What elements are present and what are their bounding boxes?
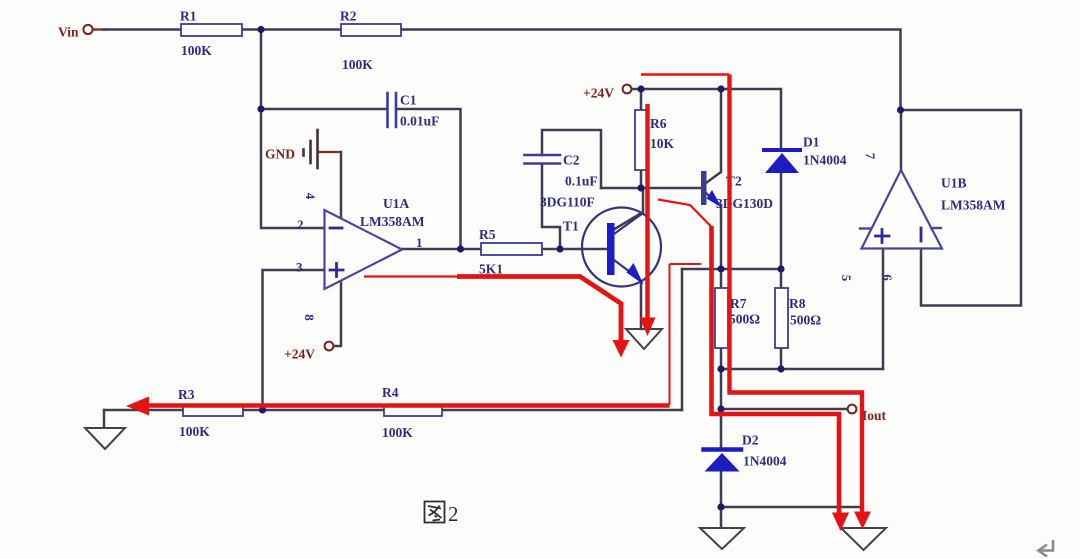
ground under T1 (626, 329, 662, 349)
wire pin8 to +24V terminal (334, 278, 341, 346)
red arrowhead under T1 left (613, 340, 630, 358)
resistor R2 (341, 24, 401, 36)
capacitor C1 (388, 93, 397, 127)
svg-text:D1: D1 (803, 135, 820, 150)
wire U1B pin5 down to sense (882, 248, 885, 369)
svg-text:R1: R1 (180, 9, 197, 24)
wire +24V rail (632, 89, 781, 148)
wire ground run right (721, 507, 862, 524)
wire Vin to R1 (104, 28, 181, 31)
resistor R8 (775, 288, 788, 348)
svg-text:U1A: U1A (383, 196, 409, 211)
svg-text:100K: 100K (342, 57, 373, 72)
wire T2 emitter down (720, 206, 723, 269)
capacitor C2 (525, 155, 561, 164)
node R6 bottom (637, 184, 644, 191)
wire sense left down to R4 (681, 269, 684, 410)
transistor T1 (582, 208, 661, 287)
wire C1 right to output node (397, 109, 461, 249)
svg-text:10K: 10K (650, 136, 675, 151)
svg-text:+24V: +24V (284, 347, 315, 362)
wire D2 top (720, 409, 723, 447)
svg-text:+24V: +24V (583, 86, 614, 101)
node sense top R8 (777, 265, 784, 272)
wire R1 to R2 (242, 28, 341, 31)
wire R7 pins (720, 269, 723, 369)
wire R6 top to +24V rail (640, 89, 643, 110)
node output C1 (457, 245, 464, 252)
node C1 branch (257, 105, 264, 112)
svg-text:1: 1 (416, 235, 423, 250)
wire sense bottom to U1B pin5 (721, 368, 883, 371)
figure label box glyph (425, 502, 445, 523)
op-amp U1B (860, 170, 942, 249)
svg-text:R5: R5 (479, 227, 496, 242)
svg-text:5: 5 (839, 275, 854, 282)
node U1B top (897, 106, 904, 113)
svg-text:100K: 100K (382, 425, 413, 440)
wire C2 top loop (542, 130, 601, 188)
terminal +24V bottom (325, 342, 334, 351)
wire R6 bottom stub (640, 170, 643, 188)
wire R5 to T1 base (542, 248, 607, 251)
svg-text:R6: R6 (650, 116, 667, 131)
wire Vin stub (93, 28, 106, 30)
svg-text:2: 2 (297, 217, 304, 232)
svg-text:R3: R3 (178, 387, 195, 402)
resistor R3 (183, 405, 243, 417)
wire U1B feedback loop (901, 110, 1022, 306)
wire Iout (721, 408, 848, 411)
ground under D2 (700, 528, 744, 549)
svg-text:100K: 100K (181, 43, 212, 58)
svg-text:R8: R8 (789, 296, 806, 311)
node sense top R7 (717, 265, 724, 272)
svg-text:1N4004: 1N4004 (803, 153, 847, 168)
svg-text:3DG110F: 3DG110F (540, 195, 595, 210)
red path feedback arrow to left ground (148, 264, 701, 406)
transistor T2 (701, 171, 722, 208)
node R3 R4 pin3 (259, 406, 266, 413)
node sense bottom R7 (717, 365, 724, 372)
wire R3 R4 net (104, 409, 682, 412)
node +24V R6 (637, 85, 644, 92)
svg-text:Iout: Iout (862, 408, 887, 423)
wire left ground stub (103, 410, 106, 428)
wire U1B pin7 output (900, 110, 903, 171)
GND bars symbol (304, 130, 318, 168)
svg-text:4: 4 (303, 193, 318, 200)
red path R6 vertical arrow (645, 104, 649, 318)
red arrowhead bottom left (832, 513, 849, 532)
op-amp U1A (325, 210, 403, 289)
svg-text:100K: 100K (179, 424, 210, 439)
wire ground stub under D2 (720, 507, 723, 526)
node Iout junction (717, 405, 724, 412)
terminal +24V top (623, 85, 632, 94)
svg-text:500Ω: 500Ω (790, 313, 821, 328)
svg-text:3: 3 (296, 260, 303, 275)
red arrowhead under T1 right (640, 318, 656, 337)
wire GND stub maroon (319, 151, 341, 153)
resistor R7 (715, 288, 728, 348)
svg-text:R2: R2 (340, 9, 357, 24)
svg-text:LM358AM: LM358AM (941, 198, 1006, 213)
red arrowhead bottom right (854, 512, 871, 530)
svg-text:Vin: Vin (58, 25, 79, 40)
red path 24V to Iout ground (641, 75, 862, 521)
svg-text:C1: C1 (400, 93, 417, 108)
svg-text:7: 7 (863, 153, 878, 160)
wire pin3 to R3R4 node (263, 270, 325, 410)
svg-text:D2: D2 (742, 433, 759, 448)
wire GND down to pin4 (340, 152, 343, 219)
wire R2 to top-right corner and down to U1B node (401, 30, 901, 111)
svg-text:0.1uF: 0.1uF (565, 174, 598, 189)
wire T2 collector (706, 89, 721, 183)
resistor R4 (384, 405, 442, 417)
svg-text:C2: C2 (563, 153, 580, 168)
wire R8 pins (780, 269, 783, 369)
wire U1A output to R5 (402, 248, 481, 251)
svg-text:2: 2 (448, 502, 459, 526)
svg-text:6: 6 (880, 274, 895, 281)
resistor R6 (635, 110, 648, 170)
terminal Vin (83, 25, 92, 34)
node +24V T2 (717, 85, 724, 92)
node C2 base (556, 245, 563, 252)
node D2 ground (717, 503, 724, 510)
node R1-R2 junction (257, 26, 264, 33)
terminal Iout (848, 405, 857, 414)
svg-text:0.01uF: 0.01uF (400, 114, 439, 129)
wire sense top (682, 268, 781, 271)
svg-text:1N4004: 1N4004 (743, 454, 787, 469)
node sense bottom R8 (777, 365, 784, 372)
wire D1 bottom (780, 173, 783, 269)
red path opamp to T1 ground (364, 277, 621, 343)
wire R1 junction down to pin2 (261, 30, 324, 229)
wire R6 bottom to T2 base (601, 187, 701, 190)
return arrow glyph (1039, 540, 1054, 557)
svg-text:T1: T1 (563, 219, 579, 234)
red path T1 collector to Iout ground (658, 200, 839, 525)
ground under R3 (85, 428, 125, 449)
svg-text:8: 8 (302, 314, 317, 321)
wire D2 bottom to ground run (720, 472, 723, 507)
svg-text:500Ω: 500Ω (729, 312, 760, 327)
resistor R1 (181, 24, 242, 36)
wire down to Iout node (720, 369, 723, 409)
svg-text:U1B: U1B (941, 176, 967, 191)
svg-text:3DG130D: 3DG130D (716, 196, 773, 211)
wire T1 collector (613, 188, 643, 230)
svg-text:GND: GND (265, 147, 295, 162)
wire C2 bottom jog to base (542, 164, 560, 249)
ground bottom right (841, 528, 886, 550)
diode D2 (704, 450, 742, 472)
red arrowhead left (126, 397, 149, 416)
svg-text:R4: R4 (382, 385, 399, 400)
diode D1 (764, 150, 800, 173)
svg-text:LM358AM: LM358AM (360, 214, 425, 229)
svg-text:R7: R7 (730, 296, 747, 311)
resistor R5 (481, 243, 542, 255)
wire C1 branch (261, 108, 386, 111)
wire T1 emitter down to ground (640, 283, 643, 329)
